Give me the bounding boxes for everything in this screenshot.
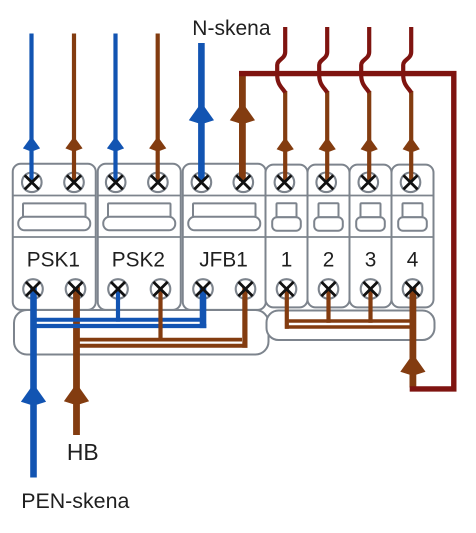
svg-text:PEN-skena: PEN-skena bbox=[21, 489, 129, 513]
svg-text:3: 3 bbox=[365, 249, 377, 272]
svg-text:JFB1: JFB1 bbox=[199, 249, 248, 272]
svg-text:2: 2 bbox=[323, 249, 335, 272]
svg-text:1: 1 bbox=[281, 249, 293, 272]
svg-text:PSK1: PSK1 bbox=[27, 249, 80, 272]
svg-text:N-skena: N-skena bbox=[192, 17, 271, 40]
svg-text:HB: HB bbox=[67, 439, 99, 465]
svg-text:4: 4 bbox=[407, 249, 419, 272]
svg-text:PSK2: PSK2 bbox=[112, 249, 165, 272]
